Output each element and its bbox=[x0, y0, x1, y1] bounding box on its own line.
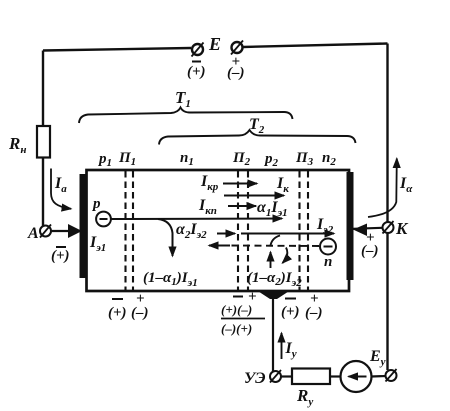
svg-text:Iк: Iк bbox=[276, 175, 289, 195]
svg-text:n: n bbox=[324, 254, 332, 270]
svg-text:П1: П1 bbox=[118, 150, 136, 168]
junction P1 polarity + over (-) bbox=[131, 291, 149, 321]
svg-text:(+): (+) bbox=[108, 305, 127, 321]
svg-text:p1: p1 bbox=[97, 151, 112, 169]
svg-text:(–): (–) bbox=[361, 243, 379, 259]
current Iy arrow bbox=[281, 333, 283, 359]
battery E terminal left bbox=[192, 43, 204, 57]
node K terminal bbox=[383, 221, 394, 234]
current Ik arrow bbox=[224, 195, 284, 197]
node A terminal bbox=[40, 225, 51, 238]
junction P3 polarity + over (-) bbox=[305, 291, 323, 321]
wire left vertical upper (top rail to Rn) bbox=[42, 51, 44, 127]
source Ey circle bbox=[341, 361, 372, 392]
svg-text:Eу: Eу bbox=[369, 348, 386, 368]
svg-text:П3: П3 bbox=[295, 150, 314, 168]
svg-text:П2: П2 bbox=[232, 150, 251, 168]
junction P2 dashed pair bbox=[238, 171, 248, 290]
E right polarity (-) with plus above bbox=[227, 54, 245, 81]
svg-text:(–): (–) bbox=[131, 305, 149, 321]
junction anode contact triangle bbox=[68, 224, 82, 238]
n-emitter minus circle bbox=[320, 239, 336, 255]
svg-text:Iкр: Iкр bbox=[200, 173, 219, 193]
svg-text:n2: n2 bbox=[322, 150, 336, 168]
svg-text:(–)(+): (–)(+) bbox=[221, 321, 252, 336]
junction P1 dashed pair bbox=[126, 171, 134, 290]
resistor Rn bbox=[37, 126, 50, 158]
svg-text:A: A bbox=[27, 225, 39, 242]
cathode metal contact bar bbox=[347, 172, 354, 280]
wire UE to Ry bbox=[281, 375, 293, 377]
source Ey internal arrow bbox=[349, 376, 367, 378]
junction P3 polarity minus-bar over (+) bbox=[281, 299, 300, 321]
emitter hole current long arrow bbox=[111, 218, 283, 221]
wire top-right horizontal from E to right branch bbox=[243, 44, 388, 48]
branch arrow (1-a1)Ie1 down bbox=[158, 219, 173, 256]
a2Ie2 arrow first head bbox=[217, 233, 235, 235]
gate contact wedge bbox=[257, 291, 290, 300]
svg-text:Iу: Iу bbox=[285, 340, 297, 360]
anode metal contact bar bbox=[80, 174, 87, 278]
current Ikr arrow bbox=[223, 183, 257, 185]
svg-text:(+)(–): (+)(–) bbox=[221, 302, 252, 317]
svg-text:Iэ1: Iэ1 bbox=[89, 234, 106, 254]
E left polarity (+) with minus above bbox=[187, 62, 206, 81]
brace T1 bbox=[79, 108, 293, 124]
resistor Ry bbox=[292, 369, 330, 385]
svg-text:УЭ: УЭ bbox=[244, 370, 266, 387]
wire left vertical lower (Rn to node A) bbox=[42, 158, 44, 227]
current Ikp arrow bbox=[228, 205, 256, 207]
gate current up arrow at P2 bbox=[270, 252, 272, 268]
svg-text:(–): (–) bbox=[227, 65, 245, 81]
wire cathode bar to node K bbox=[353, 228, 383, 229]
svg-text:E: E bbox=[208, 34, 221, 54]
junction P1 polarity minus-bar over (+) bbox=[108, 299, 127, 321]
wire top-left horizontal from left branch to E bbox=[43, 48, 191, 51]
wire node A to anode bar bbox=[51, 230, 75, 232]
svg-text:Rн: Rн bbox=[8, 134, 26, 156]
junction cathode contact triangle bbox=[353, 224, 367, 237]
svg-text:(1–α1)Iэ1: (1–α1)Iэ1 bbox=[143, 270, 198, 289]
K polarity + over (-) bbox=[361, 230, 379, 259]
junction P3 dashed pair bbox=[300, 171, 309, 290]
svg-text:(+): (+) bbox=[281, 304, 300, 320]
wire Ry to Ey bbox=[330, 375, 341, 377]
brace T2 bbox=[159, 130, 356, 145]
junction P2 polarity divider line bbox=[221, 318, 265, 320]
svg-text:(–): (–) bbox=[305, 305, 323, 321]
semiconductor body box bbox=[87, 170, 350, 291]
svg-text:Rу: Rу bbox=[296, 386, 313, 408]
node UE terminal bbox=[270, 370, 281, 383]
svg-text:Iкп: Iкп bbox=[198, 197, 217, 217]
svg-text:p: p bbox=[91, 196, 101, 212]
svg-text:(1–α2)Iэ2: (1–α2)Iэ2 bbox=[247, 270, 302, 289]
hook arrow (1-a2)Ie2 down bbox=[283, 248, 288, 264]
A polarity (+) with minus above bbox=[51, 247, 70, 264]
control circuit right terminal bbox=[386, 369, 397, 382]
svg-text:(+): (+) bbox=[51, 248, 70, 264]
svg-text:T1: T1 bbox=[175, 88, 191, 110]
svg-text:n1: n1 bbox=[180, 150, 194, 168]
svg-text:Ia: Ia bbox=[54, 175, 67, 195]
svg-text:K: K bbox=[395, 219, 409, 238]
wire right vertical (top rail through K down to control circuit) bbox=[386, 44, 388, 371]
a2Ie2 arrow to right head bbox=[241, 233, 334, 235]
svg-text:(+): (+) bbox=[187, 64, 206, 80]
p-emitter minus circle bbox=[96, 212, 111, 227]
junction P2 polarity top row bbox=[221, 289, 257, 317]
svg-text:α2Iэ2: α2Iэ2 bbox=[176, 221, 207, 241]
svg-text:α1Iэ1: α1Iэ1 bbox=[257, 199, 288, 219]
electron current left arrowhead bbox=[209, 245, 230, 247]
wire gate down to control node bbox=[272, 297, 274, 372]
electron current dashed line from n-emitter bbox=[231, 245, 319, 248]
svg-text:p2: p2 bbox=[263, 151, 279, 169]
svg-text:Iα: Iα bbox=[399, 175, 413, 195]
current Ia arrow right bbox=[368, 159, 397, 218]
battery E terminal right bbox=[231, 41, 243, 55]
wire Ey to right terminal bbox=[372, 375, 387, 378]
current Ia arrow left bbox=[51, 169, 71, 209]
gate current join arc bbox=[270, 236, 280, 247]
